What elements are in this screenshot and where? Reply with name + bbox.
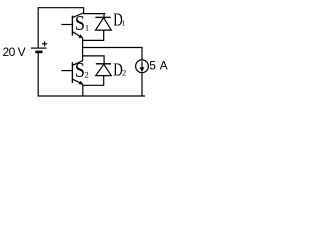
wire: branch to D2 cathode: [83, 56, 105, 64]
svg-text:2: 2: [122, 68, 126, 78]
transistor S1 emitter diagonal: [73, 32, 81, 37]
svg-text:1: 1: [122, 18, 126, 27]
wire: current source bottom lead: [141, 73, 143, 96]
current source circle: [136, 60, 149, 73]
battery plus sign: [42, 41, 47, 46]
svg-text:1: 1: [85, 23, 89, 33]
wire: stub from top bus to D1 cathode: [103, 14, 105, 18]
transistor S1 collector drop + diagonal: [73, 13, 84, 17]
wire: left side + top rail into D1: [38, 8, 105, 48]
diode D2 cathode bar: [96, 63, 111, 65]
svg-text:2: 2: [84, 70, 88, 80]
transistor S1 base bar: [71, 16, 73, 36]
transistor S2 base bar: [71, 62, 73, 83]
transistor S1 base lead: [61, 24, 72, 26]
transistor S2 emitter diagonal: [73, 79, 82, 83]
diode D1 triangle: [96, 18, 112, 30]
transistor S1 emitter arrowhead: [78, 34, 83, 38]
svg-text:20 V: 20 V: [3, 45, 26, 59]
current source arrow shaft: [141, 61, 143, 67]
wire: bottom branch to D2 anode: [83, 76, 104, 86]
diode D2 triangle: [96, 64, 112, 75]
battery bottom plate: [35, 51, 42, 54]
wire: emitter vertical bus down to S2 collector diagonal: [73, 38, 83, 65]
svg-text:S: S: [75, 11, 85, 35]
battery top plate: [31, 47, 47, 49]
diode D1 cathode bar: [95, 16, 110, 18]
current source arrowhead: [140, 67, 145, 72]
wire: branch to D1 anode: [83, 30, 104, 40]
wire: mid rail to current source: [83, 48, 142, 61]
transistor S2 emitter arrowhead: [79, 81, 84, 85]
wire: S2 emitter to bottom rail: [82, 85, 84, 96]
wire: battery bottom + bottom rail: [38, 53, 145, 96]
transistor S2 base lead: [61, 70, 72, 72]
svg-text:5 A: 5 A: [149, 59, 167, 73]
